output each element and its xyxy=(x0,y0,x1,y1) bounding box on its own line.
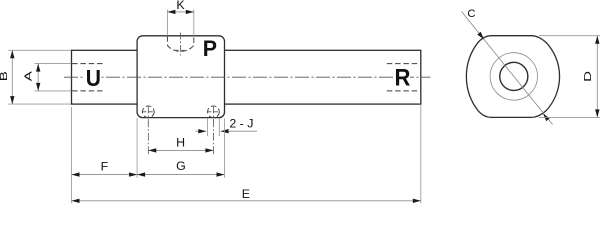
svg-text:H: H xyxy=(176,136,185,150)
svg-text:2 - J: 2 - J xyxy=(229,117,253,131)
svg-text:G: G xyxy=(176,159,186,173)
svg-text:P: P xyxy=(203,36,217,61)
svg-text:A: A xyxy=(22,71,34,81)
svg-text:F: F xyxy=(101,159,109,173)
svg-text:D: D xyxy=(581,71,593,82)
svg-text:B: B xyxy=(0,71,9,81)
svg-text:K: K xyxy=(176,0,185,12)
svg-text:E: E xyxy=(242,187,250,201)
svg-text:R: R xyxy=(394,64,410,91)
svg-text:C: C xyxy=(467,8,475,20)
svg-text:U: U xyxy=(86,65,101,91)
